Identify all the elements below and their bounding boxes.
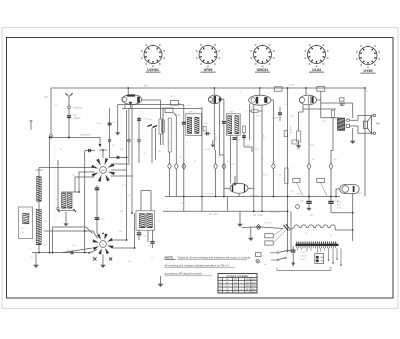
resistor R9 tall [168,118,171,152]
wire top right drop [320,91,322,118]
wire column f [147,230,149,242]
wire right bus [364,88,366,197]
svg-text:F4 - F14: F4 - F14 [254,215,263,217]
wire stem d5 [223,155,225,163]
tube V3 socket side [230,183,248,193]
svg-text:R.14: R.14 [263,175,268,177]
label box small [340,98,345,101]
wire HT to output transformer [321,117,338,119]
wire V4 pins [299,105,303,112]
trimmer below coil [59,210,74,212]
svg-text:Au speech: Au speech [80,134,92,137]
oscillator coil windings [139,214,145,228]
wire AM line [51,136,93,138]
svg-text:4.7k: 4.7k [256,116,260,118]
wire col 230.5 [230,135,232,183]
svg-text:C4 25p: C4 25p [145,119,153,121]
wire heater return [53,227,93,234]
capacitor C23 [242,136,246,138]
cross marks below socket V2 [93,257,112,261]
wire AVC bus [165,196,340,198]
svg-text:C3 50: C3 50 [96,123,102,125]
switch contact [90,249,97,252]
svg-text:11.5: 11.5 [234,289,238,291]
terminal legend [256,260,259,263]
diamond d6 [307,163,311,169]
wire IF2 left lead [223,99,225,196]
wire rectifier drop [352,193,354,241]
IF transformer T1 box [186,114,202,136]
wire V2 pins [213,104,215,150]
pointer wires [179,103,184,106]
diamond d4 [214,163,218,169]
svg-text:PO: PO [226,282,229,284]
left loop box [19,207,33,239]
wire column c [126,110,128,240]
ground comb [292,252,294,262]
oscillator coil box [136,211,155,230]
wire V3 right [271,99,273,101]
output transformer primary [337,118,344,130]
label box C30 [275,87,283,91]
capacitor Ca [68,109,70,116]
ground mid 213 [212,140,214,143]
capacitor C2 [85,150,95,152]
switch contact cluster [148,125,153,127]
wire column 139 [138,117,140,163]
svg-text:C 24: C 24 [300,252,305,254]
socket V1 leads left [39,167,95,169]
resistor R20 [297,131,301,142]
wire stem d4 [215,150,217,163]
junction dots [183,196,185,198]
resistor R7 [162,120,165,132]
diamond d1 [168,163,172,169]
svg-text:accordance MF aligned corre: accordance MF aligned correctly. [165,272,203,276]
wire elbow V3 cath [244,147,252,152]
wire rod top [38,168,40,173]
switch S2 lever lower [277,259,279,261]
diamond pilot [256,224,261,229]
wire comb drops [297,248,299,250]
capacitor C40 [308,197,310,201]
svg-text:F3 - F14: F3 - F14 [250,195,259,197]
svg-text:OC: OC [226,289,230,291]
svg-text:285: 285 [246,282,249,284]
capacitor C25 [291,250,295,252]
capacitor on bottom bus [71,251,73,254]
wire column e [134,213,136,248]
wire bottom bracket [277,270,331,272]
wire column i [162,107,164,145]
svg-text:1.5kpF: 1.5kpF [73,117,81,120]
wire osc top [140,191,142,212]
rectifier V5 UY85 [340,185,359,194]
tube V1 UCH81 [122,95,142,105]
capacitor C7a [137,119,141,121]
svg-text:F4 - F14: F4 - F14 [271,212,280,214]
terminal tp1 [128,139,131,142]
tube V2 UF89 [208,95,221,103]
svg-text:HA.: HA. [376,122,381,126]
capacitor C10 tracking [152,230,154,241]
ferrite rod coil upper [37,177,42,202]
svg-text:UF89: UF89 [204,68,213,72]
wire left rail long [49,137,51,252]
wire V2 right stub [221,98,224,100]
wire left col 52.5 [52,227,54,253]
svg-text:787: 787 [340,103,346,107]
wire socket V2 bottom [102,255,104,262]
terminal left margin [30,120,32,130]
diamond d3 [182,163,186,169]
tube base diagram UBC81 [251,44,275,72]
wire rect column top [352,103,354,118]
ground C40 [307,206,311,211]
wire column 128.9 [128,109,130,164]
wire elbow to rectifier [331,212,353,214]
wire grid bus 2 [122,108,202,110]
wire lug arrows [328,248,330,259]
svg-text:1620: 1620 [246,279,250,281]
ground V1 cathode [116,130,120,135]
svg-text:UY85: UY85 [364,69,373,73]
IF transformer T2 box [226,114,240,135]
diamond lamp L3 [272,163,276,169]
IF T2 secondary coil [235,116,239,134]
svg-text:UCH: UCH [101,170,106,172]
wire screen bus [303,108,336,110]
wire coil bottom ground [65,212,67,221]
svg-text:OC: OC [226,286,230,288]
wire antenna stem [68,101,70,106]
ground above V3 socket [234,176,236,181]
svg-text:15.5: 15.5 [246,286,250,288]
left loop resistor [23,213,29,223]
svg-text:1M: 1M [44,95,48,99]
terminal column a [108,139,111,142]
svg-text:KHz: KHz [252,279,256,281]
wire bottom left ground [35,253,37,262]
RF coil L2b [68,193,73,208]
connector strip teeth [296,241,339,249]
svg-text:UCH81: UCH81 [147,68,159,72]
wire V3 socket leads [224,187,230,189]
svg-text:FM: FM [226,292,229,294]
svg-text:18.2: 18.2 [246,289,250,291]
wire 273 column [272,100,274,163]
terminal left rail [50,135,53,138]
svg-text:10kpF: 10kpF [272,117,279,119]
label box C28 [265,241,273,245]
svg-text:KHz: KHz [252,292,256,294]
resistor R8 [159,119,162,134]
wire V1 right [142,99,161,101]
switch S2 lever upper [277,252,279,254]
svg-text:87: 87 [234,292,236,294]
wire speaker top [350,115,373,120]
wire col 333 [332,118,334,151]
switch contacts heater [284,225,289,231]
svg-text:Tracks for Service settings a: Tracks for Service settings and measures… [178,255,252,259]
wire column a [109,108,111,158]
wire tp row [110,156,127,158]
wire IF1 right lead [201,107,203,197]
svg-text:4.7kpF: 4.7kpF [300,256,307,258]
resistor R11 [203,127,206,132]
svg-text:UL84: UL84 [312,68,321,72]
wire rectifier left [336,189,340,197]
label box C36 [317,178,325,182]
svg-text:100.2: 100.2 [300,259,306,261]
svg-text:UBC81: UBC81 [257,68,269,72]
wire screen bus segment [163,210,288,212]
wire grid bus 1 [118,104,184,106]
wire stem d1 [169,152,171,163]
wire f4 bus left [131,212,133,215]
wire column g [150,191,152,212]
heater chain filaments [289,225,336,231]
ferrite rod coil lower [36,210,41,245]
wire V4 screen [298,112,300,131]
tube base diagram UL84 [305,44,329,72]
terminal strip 3 lug [315,254,324,264]
arrow grid [99,144,102,148]
ferrite rod line [38,172,40,250]
svg-text:C 1n: C 1n [20,232,24,234]
tube base diagram UCH81 [141,44,165,72]
wire column h [155,128,157,160]
resistor R22 small [331,110,334,117]
wire V3 top [259,88,261,95]
padder capacitor [137,233,142,235]
wire bus2 connectors [183,197,185,212]
svg-text:GO: GO [226,279,230,281]
tube V3 UBC81 [249,95,271,105]
wire elbow to mixer grid [93,137,100,144]
svg-text:515: 515 [234,279,237,281]
antenna A1 [66,93,73,101]
tube V4 UL84 [299,95,316,105]
socket V2 underside [93,234,114,255]
svg-text:F2 - F14: F2 - F14 [209,214,218,216]
capacitor above socket V2 [96,185,98,234]
IF T1 secondary coil [195,117,199,133]
capacitor C15 [182,122,186,124]
IF T1 primary coil [187,117,191,133]
svg-text:All metering and voltages ind: All metering and voltages indicated are … [165,263,230,267]
wire rod bottom to bus [38,250,40,253]
wire V4 right [317,99,321,101]
svg-text:Antenna: Antenna [73,107,83,110]
terminal spk bottom [373,132,375,134]
small rect legend [256,253,262,257]
label box C13 [171,101,179,106]
wire grid leak column [84,151,86,253]
wire V4 top [305,88,307,95]
svg-text:m 4.7k: m 4.7k [204,149,211,151]
svg-text:4n 470k: 4n 470k [289,126,291,135]
capacitor C18 [279,107,281,112]
capacitor C22 [233,138,237,140]
svg-text:150: 150 [234,282,237,284]
svg-text:RANGES COVERED: RANGES COVERED [227,275,249,278]
svg-text:5.9: 5.9 [234,286,237,288]
speaker LS [363,121,367,128]
terminal antenna [68,106,71,109]
wire V1 pins [124,104,126,108]
wire V1 anode top [127,88,129,95]
socket V1 underside [91,158,115,182]
label box C51 [293,178,300,182]
capacitor C16 [207,132,209,135]
capacitor C41 [330,197,332,201]
wire column 152 [151,128,153,163]
label box C32 [317,87,325,92]
diamond d7 [330,150,332,163]
RF coil L2a [62,193,67,208]
wire column d [131,105,133,213]
wire col 237 [236,135,238,183]
wire left col 58 [57,160,59,207]
terminal tp2 [138,139,141,142]
wire IF1 left lead [183,105,185,197]
socket V1 leads right [111,163,130,165]
svg-text:4uF: 4uF [337,205,341,207]
ground bus2 b [250,227,252,235]
svg-text:KHz: KHz [252,282,256,284]
svg-text:KHz: KHz [252,289,256,291]
wire V2 anode [213,88,215,95]
wire left antenna rail [50,88,52,135]
resistor R15 tall [285,168,288,184]
wire V3 pins [253,105,255,211]
ground transformer [352,128,354,138]
table ranges covered [218,274,257,294]
resistor R16 box [292,140,299,144]
socket V2 leads [44,231,98,239]
terminal spk top [373,114,375,116]
svg-text:HB 14s: HB 14s [265,222,273,224]
wire stem d2 [175,116,177,163]
wire top HT bus [51,87,365,89]
resistor R14 [284,131,287,137]
svg-text:m 4.7k: m 4.7k [262,134,264,141]
capacitor Cc [108,123,112,125]
label box C27 [265,234,273,238]
wire heater right end [335,229,353,231]
schematic border frame [7,38,394,299]
diamond d2 [174,163,178,169]
ground mid bottom [160,276,162,281]
wire speaker bottom [350,126,374,133]
svg-text:F2 1PM: F2 1PM [205,194,213,196]
svg-text:NOTE: NOTE [165,255,173,259]
wire cathode drop [117,105,119,130]
tube base diagram UY85 [356,45,380,73]
ground V4 k [297,143,301,148]
tube base diagram UF89 [196,44,220,72]
svg-text:KHz: KHz [252,286,256,288]
diamond d5 [222,163,226,169]
wire comb left drop [292,246,294,250]
svg-text:a 0.1k: a 0.1k [214,134,216,141]
wire chassis left pair [287,88,289,253]
wire V2 aux pin [220,103,224,155]
terminal near C51 [296,205,300,209]
wire socket V1 top [102,150,104,158]
label box C14 [165,108,173,113]
IF T2 primary coil [228,116,232,134]
wire coil top [62,191,80,193]
output transformer secondary [346,119,350,122]
resistor R12 [242,126,245,133]
ground bus2 a [239,211,241,221]
capacitor C21 [222,122,226,124]
resistor R15 [252,110,259,113]
svg-text:C1 MT: C1 MT [288,85,295,87]
capacitor C6 [117,156,119,159]
